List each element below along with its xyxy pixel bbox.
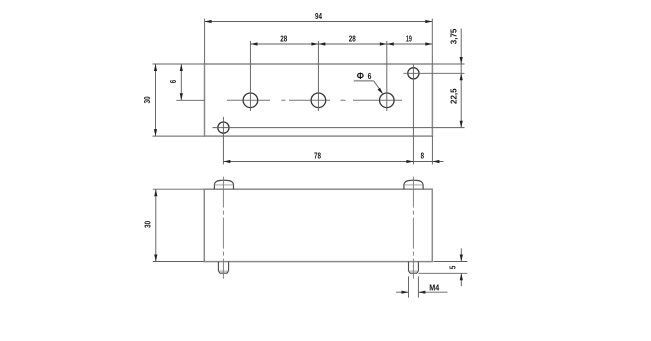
dim 3,75 arrow (down, above top edge) (460, 57, 463, 64)
dim 30 top extension (153, 63, 205, 65)
dim 94 extension left (204, 19, 206, 64)
dim 94 line (205, 21, 433, 23)
dim 5 arrow top (460, 255, 463, 262)
arrow at 250.5 (251, 42, 258, 45)
svg-text:Φ: Φ (357, 71, 364, 81)
dim 30 front top extension (153, 188, 205, 190)
svg-text:5: 5 (447, 266, 457, 270)
dim M4 arrow right (418, 291, 425, 294)
svg-text:6: 6 (368, 71, 372, 81)
svg-text:94: 94 (315, 11, 322, 21)
dim 30 (top view) line (155, 64, 157, 136)
svg-text:78: 78 (314, 150, 321, 160)
dim 6 line (180, 64, 182, 100)
svg-text:19: 19 (406, 34, 412, 44)
right-side dim line (3,75 / 22,5) (460, 29, 462, 128)
svg-text:28: 28 (280, 34, 287, 44)
stud right chamfer line (409, 270, 419, 272)
leader diagonal (374, 81, 382, 93)
dim 78 arrow left (223, 160, 230, 163)
centerline right stud (412, 177, 414, 279)
leader underline (354, 80, 374, 82)
dim 5 line above (460, 248, 462, 261)
svg-text:8: 8 (421, 150, 425, 160)
arrows at 386.8 (380, 42, 387, 45)
dim 30 arrow bottom (154, 129, 157, 136)
screw head right (404, 180, 423, 189)
centerline through row of holes (227, 99, 402, 101)
dim M4 arrow left (402, 291, 409, 294)
hole H2 (middle of row) (311, 93, 326, 108)
centerline left stud (222, 177, 224, 279)
dim 30 (front) line (155, 189, 157, 261)
svg-text:M4: M4 (429, 283, 439, 293)
svg-text:30: 30 (142, 96, 152, 103)
top edge extension to right (432, 63, 464, 65)
leader arrow (378, 88, 384, 94)
hole H3 (right of row) (380, 93, 395, 108)
plate outline (top view) (205, 64, 433, 136)
dim 28/28/19 line (251, 43, 433, 45)
svg-text:30: 30 (142, 221, 152, 228)
dim 5 line below (460, 273, 462, 286)
dim 78 arrow right (406, 160, 413, 163)
dim 6 arrow bottom (180, 93, 183, 100)
svg-text:22,5: 22,5 (449, 88, 459, 104)
dim 6 bottom extension (176, 99, 204, 101)
crosshair vertical hole H4 extended to 78 dim (222, 117, 224, 164)
dim 78/8 line (223, 161, 443, 163)
stud left below plate (218, 262, 228, 274)
svg-text:28: 28 (349, 34, 356, 44)
extension over hole H3 (386, 41, 388, 111)
dim 30 front arrow top (154, 189, 157, 196)
svg-text:6: 6 (168, 80, 178, 84)
dim 5 arrow bottom (460, 273, 463, 280)
dim 30 bottom extension (153, 135, 205, 137)
screw head left (214, 180, 233, 189)
dim 30 front arrow bottom (154, 255, 157, 262)
stud left chamfer line (218, 270, 228, 272)
stud right below plate (409, 262, 419, 274)
crosshair vertical hole H5 extended down to 78 dim (412, 64, 414, 164)
shared arrow (up, below hole H5 line) (460, 73, 463, 80)
extension over hole H1 (249, 41, 251, 111)
hole H4 (bottom-left corner) (218, 122, 229, 133)
dim 94 arrow right (425, 20, 432, 23)
arrow at 432.3 (425, 42, 432, 45)
dim M4 extensions (408, 276, 410, 297)
dim 8 arrow (outside right) (432, 160, 439, 163)
hole H1 (left of row) (243, 93, 258, 108)
extension right edge down (431, 136, 433, 164)
dim 5 extensions (434, 261, 468, 263)
screw head left washer line (214, 184, 233, 186)
crosshair horizontal hole H4 extended to right dim (213, 127, 465, 129)
dim 30 arrow top (154, 64, 157, 71)
crosshair horizontal hole H5 extended to right dim (404, 72, 465, 74)
screw head right washer line (404, 184, 423, 186)
dim M4 line left (396, 291, 408, 293)
hole H5 (top-right corner) (408, 68, 419, 79)
extension over hole H2 (317, 41, 319, 111)
dim 22,5 arrow (down, at hole H4 line) (460, 121, 463, 128)
arrows at 318.4 (311, 42, 318, 45)
plate outline (front view) (204, 189, 432, 261)
dim M4 line right (418, 291, 447, 293)
dim 6 arrow top (180, 64, 183, 71)
dim 94 extension right (431, 19, 433, 64)
dim 94 arrow left (205, 20, 212, 23)
svg-text:3,75: 3,75 (449, 28, 459, 44)
dim 30 front bottom extension (153, 261, 205, 263)
